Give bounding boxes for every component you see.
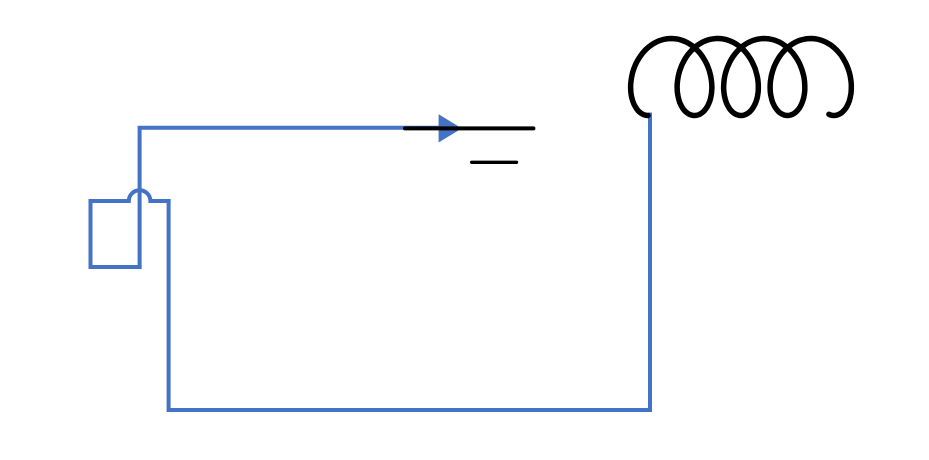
battery plate (long, positive): [405, 126, 533, 130]
battery: [405, 128, 533, 162]
wire: down the left, along the bottom, up to the coil: [169, 113, 650, 411]
inductor (coil) L: [631, 39, 852, 116]
battery plate (short, negative): [472, 161, 517, 164]
wire with crossover hop: [91, 190, 171, 201]
wire: top horizontal from battery to left corner, down to cell box: [138, 128, 455, 269]
cell box (left component loop): [91, 199, 142, 267]
current direction arrow: [439, 114, 462, 142]
